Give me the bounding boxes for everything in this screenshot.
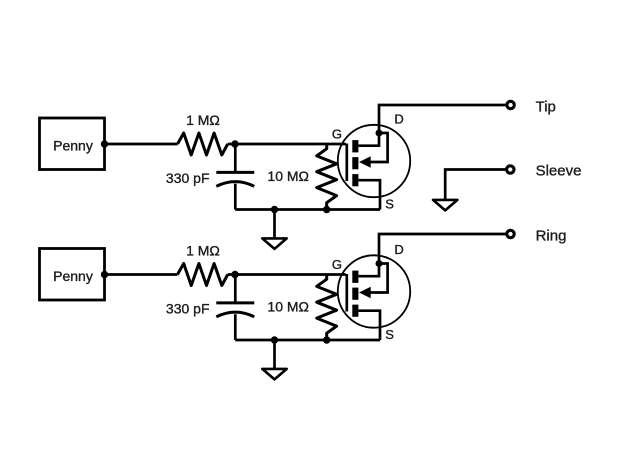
junction dot rail2-ground [271, 336, 278, 343]
svg-text:Ring: Ring [536, 227, 567, 244]
svg-text:Sleeve: Sleeve [536, 163, 582, 180]
MOSFET Q2 body tie wire [364, 264, 388, 293]
svg-text:10 MΩ: 10 MΩ [267, 168, 309, 184]
MOSFET Q2 drain channel bar [352, 271, 358, 283]
MOSFET Q2 drain lead [358, 264, 379, 277]
node dot at Penny2 output [101, 271, 108, 278]
svg-text:G: G [332, 257, 342, 272]
svg-text:330 pF: 330 pF [166, 301, 210, 317]
resistor R4 10 MΩ [317, 275, 337, 341]
resistor R3 1 MΩ [178, 264, 228, 286]
svg-text:Penny: Penny [53, 138, 93, 154]
svg-text:1 MΩ: 1 MΩ [186, 112, 220, 128]
svg-text:D: D [394, 111, 403, 126]
svg-text:10 MΩ: 10 MΩ [267, 299, 309, 315]
svg-text:330 pF: 330 pF [166, 170, 210, 186]
MOSFET Q1 gate bar [345, 144, 348, 182]
node dot at Penny1 output [101, 140, 108, 147]
svg-text:S: S [385, 327, 394, 342]
Penny box 1 [40, 118, 105, 170]
junction dot rail1-ground [271, 206, 278, 213]
MOSFET Q2 source channel bar [352, 305, 358, 317]
Penny box 2 [40, 249, 105, 301]
ground symbol Sleeve [433, 200, 457, 211]
wire R3 to gate node [228, 273, 346, 276]
wire ground rail 1 [235, 208, 380, 211]
terminal Tip [507, 101, 514, 108]
MOSFET Q1 body arrow [359, 156, 371, 168]
svg-text:1 MΩ: 1 MΩ [186, 243, 220, 259]
svg-text:S: S [385, 196, 394, 211]
wire Q1 drain to Tip terminal [379, 105, 507, 133]
capacitor C1 bottom curved plate [216, 182, 254, 187]
wire Penny2 to R3 [105, 273, 178, 276]
svg-text:Penny: Penny [53, 268, 93, 284]
resistor R2 10 MΩ [317, 144, 337, 210]
capacitor C1 330 pF top plate [216, 171, 254, 174]
wire ground stub 1 [273, 210, 276, 239]
MOSFET Q2 source lead [358, 311, 380, 340]
MOSFET Q1 body channel bar [352, 157, 358, 169]
wire R1 to gate node [228, 143, 346, 146]
MOSFET Q2 body channel bar [352, 288, 358, 300]
wire ground stub 2 [273, 340, 276, 369]
MOSFET Q1 body circle [338, 125, 410, 197]
MOSFET Q1 drain junction dot [376, 130, 383, 137]
MOSFET Q1 drain lead [358, 133, 379, 146]
svg-text:G: G [332, 127, 342, 142]
capacitor C2 bottom curved plate [216, 312, 254, 317]
junction dot R2-rail1 [323, 206, 330, 213]
wire node B down to C2 [234, 275, 237, 303]
MOSFET Q1 drain channel bar [352, 140, 358, 152]
MOSFET Q1 source channel bar [352, 174, 358, 186]
MOSFET Q1 source lead [358, 180, 380, 209]
wire Penny1 to R1 [105, 143, 178, 146]
ground symbol 1 [262, 238, 286, 249]
wire C1 down to ground rail [234, 184, 237, 210]
wire Q2 drain to Ring terminal [379, 234, 507, 264]
node B dot (R3/C2/gate) [231, 271, 238, 278]
wire C2 down to ground rail [234, 314, 237, 340]
wire node A down to C1 [234, 144, 237, 172]
capacitor C2 330 pF top plate [216, 301, 254, 304]
MOSFET Q2 drain junction dot [376, 260, 383, 267]
node A dot (R1/C1/gate) [231, 140, 238, 147]
svg-text:D: D [394, 242, 403, 257]
resistor R1 1 MΩ [178, 133, 228, 155]
MOSFET Q2 gate bar [345, 274, 348, 312]
MOSFET Q2 body circle [338, 255, 410, 327]
svg-text:Tip: Tip [536, 98, 556, 115]
terminal Sleeve [507, 166, 514, 173]
wire Sleeve terminal to ground [445, 170, 506, 200]
terminal Ring [507, 230, 514, 237]
MOSFET Q1 body tie wire [364, 133, 388, 162]
ground symbol 2 [262, 369, 286, 380]
MOSFET Q2 body arrow [359, 287, 371, 299]
wire ground rail 2 [235, 339, 380, 342]
junction dot R4-rail2 [323, 336, 330, 343]
